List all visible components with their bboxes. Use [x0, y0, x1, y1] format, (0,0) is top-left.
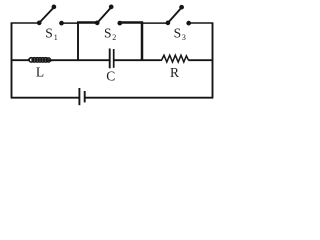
- switch S2: [95, 5, 122, 26]
- svg-text:2: 2: [112, 33, 116, 42]
- wire: middle rail left edge to inductor: [11, 59, 30, 61]
- wire: bottom rail left of battery: [11, 97, 80, 99]
- svg-text:S: S: [45, 25, 53, 40]
- wire: bottom rail right of battery: [85, 97, 214, 99]
- wire: top rail segment junction2 to S3 left: [142, 22, 168, 24]
- wire: middle rail inductor to capacitor left plate: [49, 59, 110, 61]
- resistor R zigzag: [160, 55, 189, 62]
- wire: bold top rail segment junction to S2 left: [77, 21, 97, 23]
- svg-text:3: 3: [182, 33, 186, 42]
- battery: left (long) plate: [78, 88, 80, 105]
- switch S1: [37, 5, 64, 26]
- svg-text:S: S: [174, 25, 182, 40]
- switch S3: [166, 5, 192, 26]
- inductor L coil: [28, 58, 54, 63]
- wire: top rail segment S2 to S3: [120, 21, 143, 23]
- wire: middle rail resistor to right edge: [188, 59, 213, 61]
- svg-text:S: S: [104, 25, 112, 40]
- wire: right edge vertical: [212, 23, 214, 98]
- capacitor C plates: [110, 49, 114, 69]
- wire: middle rail capacitor right plate to resistor: [114, 59, 161, 61]
- wire: top rail segment S1 to S2: [62, 22, 79, 24]
- battery: right (short) plate: [84, 91, 86, 102]
- wire: top rail segment from left corner to S1: [11, 22, 39, 24]
- svg-text:R: R: [170, 65, 179, 80]
- wire: junction vertical between S1/S2 down to middle rail: [77, 23, 79, 60]
- wire: left edge vertical: [11, 23, 13, 98]
- wire: junction vertical between S2/S3 down to middle rail: [141, 22, 144, 61]
- wire: top rail segment S3 to right corner: [189, 22, 214, 24]
- svg-text:L: L: [36, 64, 44, 79]
- svg-text:1: 1: [54, 33, 58, 42]
- svg-text:C: C: [106, 69, 115, 84]
